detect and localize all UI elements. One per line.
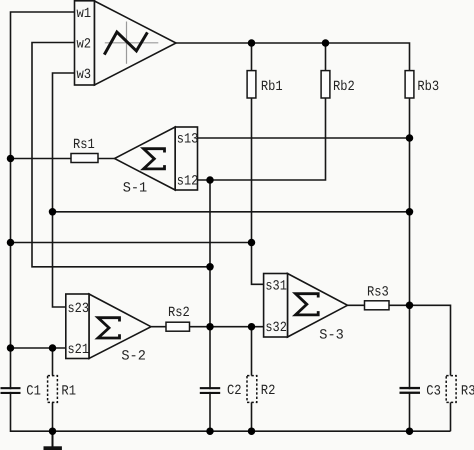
node Rb1 bottom join [248, 239, 256, 247]
svg-text:s23: s23 [68, 301, 90, 317]
node s12 junction [206, 176, 214, 184]
svg-text:R2: R2 [261, 383, 276, 399]
node R2 bottom [248, 427, 256, 435]
resistor Rs1 [71, 154, 98, 163]
nonlinear block W triangle [95, 1, 177, 85]
node 242 tap [7, 239, 15, 247]
wire C2 column [209, 180, 211, 389]
node Rs1 tap [7, 155, 15, 163]
capacitor C2 [200, 387, 220, 394]
wire Rb1 column to s31 [252, 43, 264, 284]
summer S-2 triangle [89, 294, 151, 359]
node mid-wire end [406, 208, 414, 216]
svg-text:s12: s12 [177, 174, 199, 190]
summer S-3 triangle [288, 274, 348, 338]
summer S-1 sigma [144, 149, 165, 169]
W transfer-curve zigzag [104, 32, 147, 55]
node Rs3 output [406, 302, 414, 310]
resistor R1 (dashed) [48, 376, 58, 403]
wire R2 column [251, 327, 253, 432]
svg-text:S-1: S-1 [123, 180, 148, 196]
resistor Rb1 [247, 71, 256, 98]
capacitor C3 [400, 387, 421, 394]
node mid-wire start [49, 208, 57, 216]
W transfer-curve axes [105, 22, 159, 64]
wire Rb3 column lower [409, 392, 411, 431]
svg-text:R1: R1 [61, 384, 76, 400]
resistor Rs3 [365, 301, 390, 310]
capacitor C1 [1, 387, 21, 394]
svg-text:w3: w3 [77, 67, 92, 83]
node s21 tap [7, 344, 15, 352]
wire w3 input [53, 73, 75, 307]
summer S-2 input box [66, 294, 89, 359]
svg-text:Rs2: Rs2 [168, 305, 190, 321]
svg-text:s31: s31 [265, 279, 287, 295]
node R1 top [49, 344, 57, 352]
svg-text:Rb1: Rb1 [261, 79, 283, 95]
resistor Rs2 [166, 322, 190, 331]
node Rs2 output [206, 323, 214, 331]
svg-text:S-3: S-3 [319, 328, 344, 344]
wire S-3 output [348, 305, 451, 431]
wire S-2 output to s32 [151, 326, 264, 328]
wire s21 input [11, 347, 66, 349]
node C2 bottom [206, 427, 214, 435]
ground [44, 431, 62, 450]
svg-text:S-2: S-2 [121, 349, 145, 365]
summer S-3 sigma [296, 294, 319, 315]
wire w2 input [32, 43, 210, 267]
nonlinear block W input box [75, 1, 95, 85]
svg-text:w1: w1 [77, 6, 92, 22]
node s13 join [406, 134, 414, 142]
resistor R2 (dashed) [247, 376, 257, 403]
svg-text:Rs1: Rs1 [73, 137, 95, 153]
wire mid node [53, 211, 410, 213]
svg-text:Rs3: Rs3 [367, 284, 389, 300]
svg-text:s13: s13 [177, 132, 199, 148]
svg-text:s21: s21 [68, 342, 90, 358]
wire Rb2 column upper [325, 43, 327, 71]
resistor R3 (dashed) [446, 376, 456, 403]
wire node to Rb1 column [11, 242, 252, 244]
node ground junction [49, 427, 57, 435]
node R2 top [248, 323, 256, 331]
summer S-2 sigma [98, 318, 120, 338]
resistor Rb3 [405, 71, 414, 98]
wire Rs1 to S-1 apex [11, 158, 115, 160]
wire C2 column lower [209, 392, 211, 431]
svg-text:Rb3: Rb3 [417, 79, 439, 95]
svg-text:Rb2: Rb2 [333, 79, 355, 95]
summer S-3 input box [264, 274, 288, 338]
svg-text:s32: s32 [265, 320, 287, 336]
node Rb1 top [248, 39, 256, 47]
wire W output top [176, 43, 410, 389]
svg-text:C3: C3 [426, 384, 441, 400]
node w2 join [206, 263, 214, 271]
wire s12 output [198, 99, 326, 181]
svg-text:w2: w2 [77, 36, 92, 52]
wire s13 output [198, 137, 410, 139]
svg-text:C1: C1 [26, 384, 41, 400]
summer S-1 input box [175, 127, 197, 190]
wire C1 column lower [11, 392, 451, 431]
wire w1 input [11, 12, 75, 389]
resistor Rb2 [321, 71, 330, 98]
svg-text:C2: C2 [227, 383, 242, 399]
node Rb2 top [322, 39, 330, 47]
node C3 bottom [406, 427, 414, 435]
wire R1 column [52, 348, 54, 431]
svg-text:R3: R3 [461, 384, 474, 400]
summer S-1 triangle [115, 127, 176, 190]
